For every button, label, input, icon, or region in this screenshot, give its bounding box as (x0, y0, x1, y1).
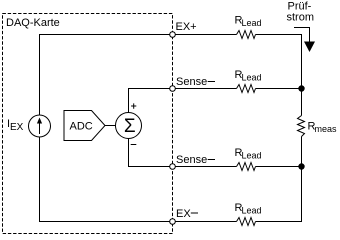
svg-text:Lead: Lead (242, 73, 262, 83)
wire Sense row3 external (terminal to resistor) (173, 166, 237, 168)
svg-text:DAQ-Karte: DAQ-Karte (6, 17, 60, 29)
label Sense- (row 2) (176, 76, 215, 88)
junction node (rail / Sense row3) (298, 163, 304, 169)
wire EX- internal (current source bottom to EX- terminal) (40, 137, 173, 222)
wire EX- return to rail bottom (256, 167, 302, 222)
svg-text:Σ: Σ (124, 116, 136, 137)
resistor RLead (EX- row) (237, 218, 256, 226)
label Sense- (row 3) (176, 154, 215, 166)
label RLead (EX+ row) (235, 15, 262, 29)
svg-text:EX: EX (176, 208, 191, 220)
terminal EX- (170, 219, 176, 225)
resistor RLead (Sense row 3) (237, 163, 256, 171)
wire ADC output to summing amp (105, 125, 116, 127)
label IEX (7, 118, 24, 133)
wire EX+ internal (current source top to EX+ terminal) (40, 35, 173, 116)
resistor RLead (EX+ row) (237, 31, 256, 39)
svg-text:Sense: Sense (176, 154, 207, 166)
wire EX+ to right rail, rail top segment (256, 35, 302, 116)
wire Sense row3 to rail (256, 166, 302, 168)
DAQ card dashed boundary (3, 14, 173, 234)
resistor Rmeas (298, 116, 305, 137)
junction node (rail / Sense row2) (298, 85, 304, 91)
terminal Sense row3 (170, 164, 176, 170)
ADC block (64, 111, 105, 141)
resistor RLead (Sense row 2) (237, 85, 256, 93)
test current direction arrow (294, 28, 315, 53)
label RLead (EX- row) (235, 202, 262, 216)
label RLead (Sense row 2) (235, 69, 262, 83)
terminal Sense row2 (170, 86, 176, 92)
plus input label (131, 103, 136, 108)
label RLead (Sense row 3) (235, 147, 262, 161)
rail middle segment (Rmeas bottom to Sense row3 node) (301, 137, 303, 167)
label EX- (176, 208, 198, 220)
wire EX+ external (terminal to resistor) (173, 34, 237, 36)
wire Sense row2 external (terminal to resistor) (173, 88, 237, 90)
current source IEX (29, 115, 51, 137)
wire Sense (row 3) internal to summing amp - input (129, 139, 173, 167)
summing amplifier (sigma) (116, 113, 142, 139)
wire Sense (row 2) internal to summing amp + input (129, 89, 173, 113)
svg-text:ADC: ADC (70, 121, 93, 133)
svg-text:EX+: EX+ (176, 21, 197, 33)
wire EX- external (terminal to resistor) (173, 221, 237, 223)
svg-text:Lead: Lead (242, 151, 262, 161)
wire Sense row2 to rail (256, 88, 302, 90)
minus input label (131, 144, 137, 146)
svg-text:Sense: Sense (176, 76, 207, 88)
label Pruef-strom (287, 1, 315, 24)
terminal EX+ (170, 32, 176, 38)
label Rmeas (308, 121, 338, 135)
svg-text:Lead: Lead (242, 206, 262, 216)
svg-text:strom: strom (287, 12, 315, 24)
svg-text:Lead: Lead (242, 18, 262, 28)
svg-text:EX: EX (10, 122, 24, 133)
svg-text:meas: meas (315, 124, 338, 134)
